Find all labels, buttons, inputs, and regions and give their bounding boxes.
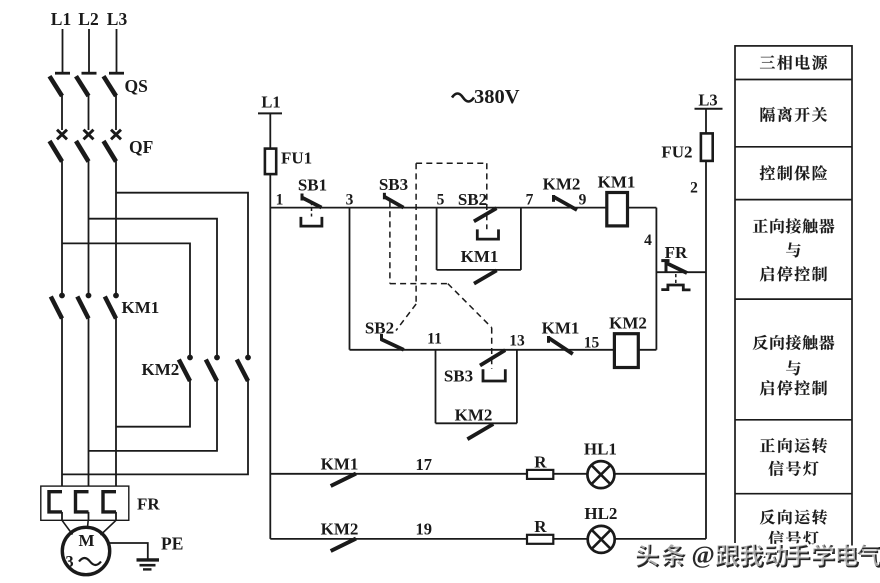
wire QF to KM1 contacts (3 phases)	[62, 161, 116, 294]
node L3 phase terminal	[107, 9, 128, 73]
fuse FU1	[265, 149, 312, 175]
wire KM2 pole1 crossover to phase3	[116, 380, 190, 427]
wire branch L1 to KM2 pole1	[62, 243, 190, 355]
circuit breaker QF	[50, 130, 154, 162]
node 5 label and junction	[437, 192, 445, 270]
latch branch KM2 (rung2)	[436, 406, 517, 440]
button SB3 NO contact (rung1)	[379, 175, 408, 208]
table row: reverse running signal lamp	[760, 509, 827, 546]
svg-text:R: R	[534, 517, 547, 536]
table row: reverse contactor and start-stop control	[753, 335, 835, 396]
table row: three-phase power	[760, 55, 827, 70]
svg-text:11: 11	[427, 331, 442, 348]
lamp contact KM1 (rung3)	[321, 455, 359, 487]
annotation table frame	[735, 46, 852, 557]
svg-text:SB1: SB1	[298, 176, 327, 195]
lamp contact KM2 (rung4)	[321, 520, 359, 552]
svg-text:9: 9	[579, 192, 587, 209]
wire KM2 pole3 crossover to phase1	[62, 380, 248, 474]
svg-text:L3: L3	[698, 91, 717, 110]
wire motor to PE ground	[109, 543, 148, 559]
svg-text:FU1: FU1	[281, 149, 312, 168]
left rail wire	[269, 113, 271, 539]
resistor R (rung3)	[527, 452, 553, 479]
svg-text:4: 4	[644, 232, 652, 249]
svg-text:HL1: HL1	[584, 439, 617, 458]
node L2 phase terminal	[78, 9, 98, 73]
svg-text:7: 7	[526, 192, 534, 209]
ground symbol PE	[137, 534, 184, 570]
svg-text:@: @	[692, 542, 715, 569]
svg-text:2: 2	[690, 180, 698, 197]
wire QS to QF (3 phases)	[62, 95, 116, 130]
svg-text:15: 15	[584, 335, 600, 352]
svg-text:FR: FR	[665, 243, 688, 262]
contactor KM1 main contacts	[51, 293, 159, 319]
svg-text:KM2: KM2	[543, 175, 581, 194]
mechanical linkage dashed box	[390, 163, 492, 369]
mechanical linkage dashes SB3	[389, 201, 391, 284]
label ~380V	[452, 86, 520, 108]
svg-text:SB3: SB3	[379, 175, 408, 194]
svg-text:KM2: KM2	[321, 520, 359, 539]
signal lamp HL2	[584, 504, 617, 553]
node 13 label and junction	[509, 333, 525, 424]
contactor KM2 main contacts	[142, 355, 251, 381]
svg-text:19: 19	[416, 520, 433, 539]
wire FR to motor	[62, 512, 116, 535]
node 3 label and junction	[346, 192, 354, 350]
svg-text:L1: L1	[51, 9, 71, 29]
svg-text:R: R	[534, 452, 547, 471]
right rail wire	[705, 109, 707, 539]
rung 1 wire	[270, 207, 607, 209]
svg-text:KM1: KM1	[461, 247, 499, 266]
svg-text:5: 5	[437, 192, 445, 209]
svg-text:M: M	[78, 531, 94, 550]
FR heater element 2	[76, 492, 89, 512]
svg-text:SB2: SB2	[365, 319, 394, 338]
svg-text:KM1: KM1	[122, 298, 160, 317]
wire KM1 contacts down to FR (3 phases)	[62, 318, 116, 487]
svg-text:1: 1	[276, 192, 284, 209]
node L3 control tap	[695, 91, 723, 110]
table row: control fuse	[760, 165, 827, 180]
svg-text:KM2: KM2	[609, 314, 647, 333]
svg-text:13: 13	[509, 333, 525, 350]
svg-text:FU2: FU2	[661, 143, 692, 162]
svg-text:SB3: SB3	[444, 367, 473, 386]
fuse FU2	[661, 133, 712, 161]
svg-text:KM2: KM2	[455, 406, 493, 425]
interlock contact KM1 (NC, rung2)	[542, 319, 580, 355]
svg-text:3: 3	[65, 552, 73, 571]
node L1 control tap	[258, 93, 282, 114]
disconnect switch QS	[50, 76, 148, 96]
wire branch L3 to KM2 pole3	[116, 193, 248, 356]
node 11 label and junction	[427, 331, 442, 424]
FR heater element 1	[49, 492, 62, 512]
svg-text:SB2: SB2	[458, 190, 487, 209]
svg-text:KM1: KM1	[321, 455, 359, 474]
motor M 3-phase	[62, 527, 109, 574]
table row: isolating switch	[761, 107, 828, 122]
wire KM1 coil to node 4 rail	[628, 208, 657, 350]
svg-text:QS: QS	[125, 76, 148, 96]
contactor coil KM1	[598, 172, 636, 226]
svg-text:KM2: KM2	[142, 360, 180, 379]
wire branch L2 to KM2 pole2	[89, 219, 218, 356]
svg-text:3: 3	[346, 192, 354, 209]
svg-text:KM1: KM1	[598, 172, 636, 191]
svg-text:QF: QF	[129, 137, 153, 157]
svg-text:L1: L1	[261, 93, 280, 112]
svg-text:FR: FR	[137, 495, 160, 514]
start button SB2 NO (rung1)	[458, 190, 499, 239]
rung 2 wire	[350, 349, 615, 351]
svg-text:KM1: KM1	[542, 319, 580, 338]
interlock contact KM2 (NC, rung1)	[543, 175, 581, 211]
svg-text:17: 17	[416, 455, 433, 474]
latch branch KM1 (rung1)	[437, 208, 521, 284]
watermark toutiao text	[635, 542, 880, 569]
svg-text:L2: L2	[78, 9, 98, 29]
node L1 phase terminal	[51, 9, 71, 73]
FR heater element 3	[103, 492, 116, 512]
contactor coil KM2	[609, 314, 647, 368]
svg-text:380V: 380V	[474, 86, 520, 108]
svg-text:HL2: HL2	[584, 504, 617, 523]
wire KM2 coil to rail	[638, 349, 656, 351]
table row: forward running signal lamp	[760, 438, 827, 476]
table row: forward contactor and start-stop control	[753, 218, 835, 281]
button SB3 NO contact (rung2)	[444, 350, 505, 385]
start button SB2 NO (rung2)	[365, 319, 404, 350]
thermal relay FR contact (NC)	[656, 243, 706, 290]
rung 4 wire	[270, 538, 706, 540]
thermal overload relay FR heater box	[41, 486, 129, 520]
stop button SB1 (NC)	[298, 176, 327, 227]
svg-text:PE: PE	[161, 534, 183, 554]
rung 3 wire	[270, 473, 706, 475]
resistor R (rung4)	[527, 517, 553, 544]
wire KM2 pole2 to phase2	[89, 380, 218, 451]
svg-text:L3: L3	[107, 9, 128, 29]
signal lamp HL1	[584, 439, 617, 488]
